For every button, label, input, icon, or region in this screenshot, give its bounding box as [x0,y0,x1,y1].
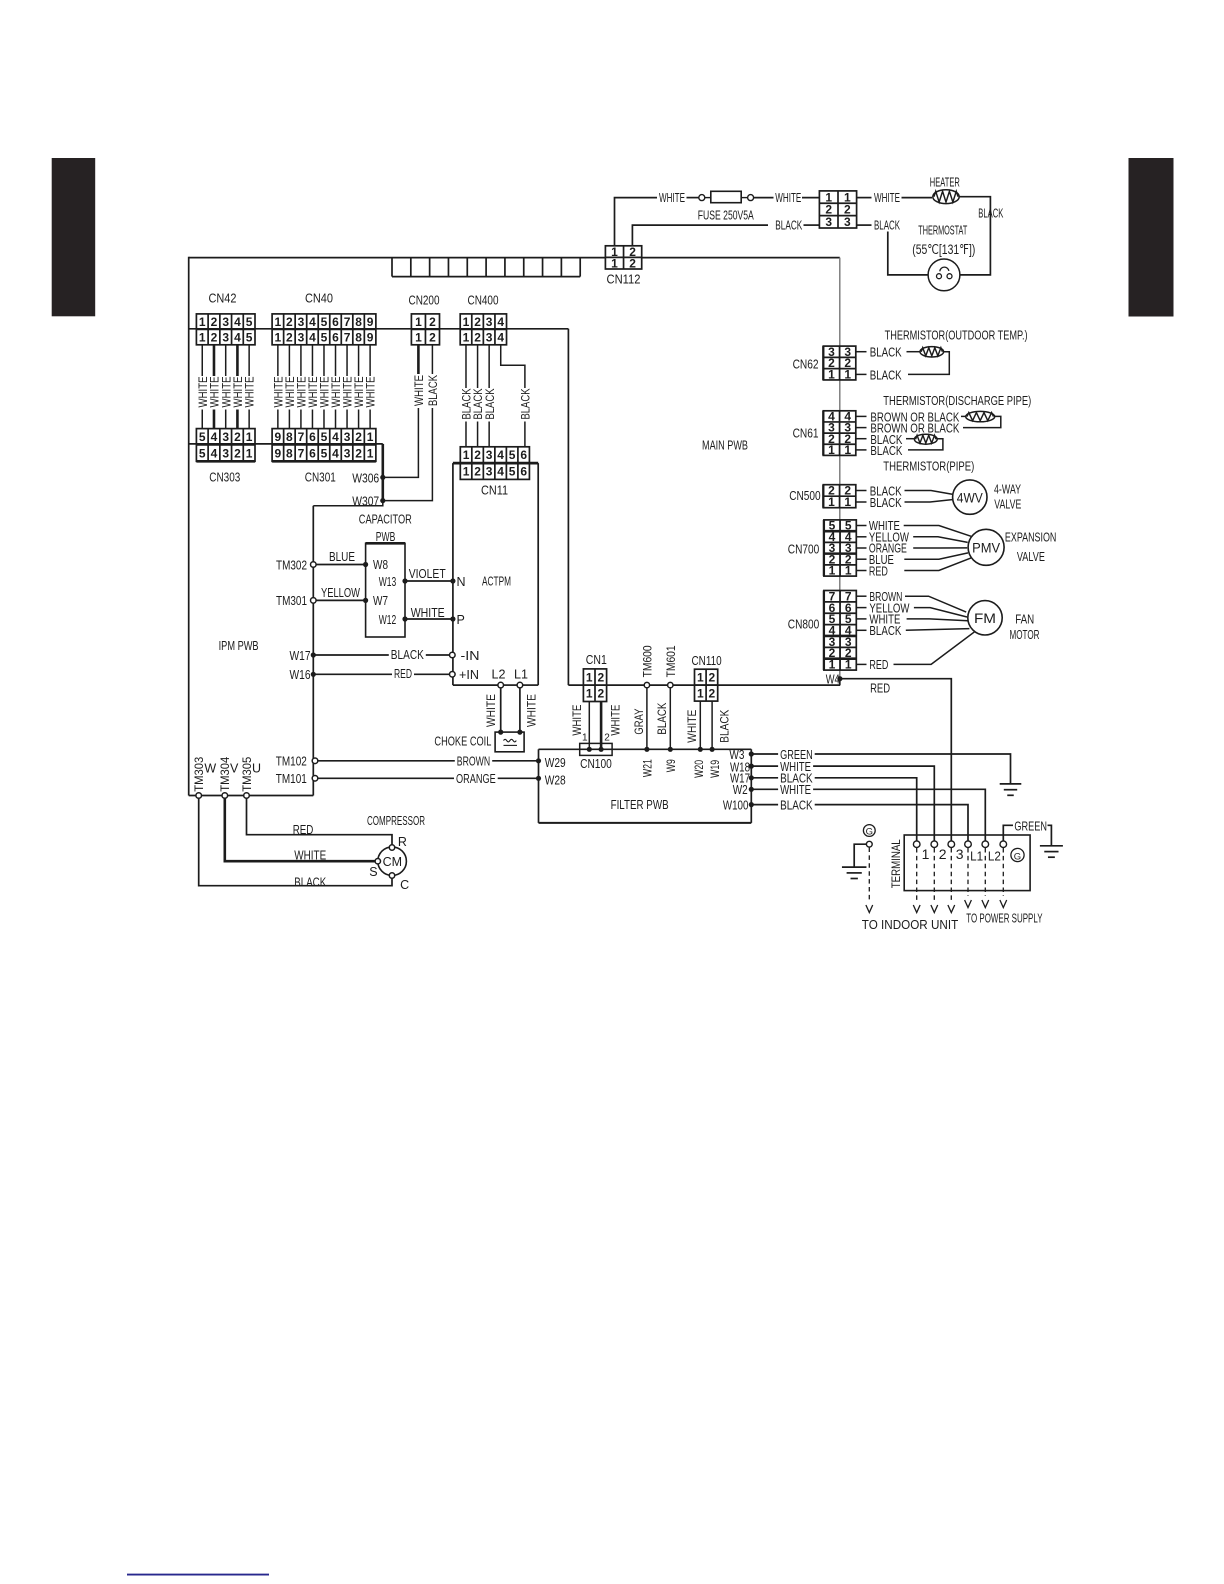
svg-text:4-WAY: 4-WAY [994,482,1021,496]
node W17 [311,652,316,657]
page tab right [1129,158,1174,317]
label WHITE [778,783,813,798]
svg-text:S: S [369,865,377,879]
wire L1 to choke coil [519,688,521,732]
wire black W17 to terminal 1 [751,778,916,842]
svg-text:VIOLET: VIOLET [409,567,446,581]
svg-text:W28: W28 [545,773,566,787]
IPM PWB right edge [312,506,314,796]
svg-text:4: 4 [309,315,316,329]
svg-text:2: 2 [474,330,481,344]
svg-text:CN301: CN301 [305,470,336,485]
svg-text:2: 2 [234,446,241,460]
node W7 [363,598,368,603]
svg-text:CN100: CN100 [580,757,612,771]
svg-text:CN200: CN200 [409,293,440,308]
svg-text:BLACK: BLACK [870,346,903,360]
svg-text:VALVE: VALVE [1017,550,1045,564]
connector CN400 [460,314,506,345]
svg-text:7: 7 [298,446,305,460]
node W4 [837,676,842,681]
svg-text:W12: W12 [379,613,397,627]
svg-text:1: 1 [844,443,851,457]
node W28 [536,776,541,781]
comb edge connector [392,258,580,277]
node choke L2 [498,730,503,735]
svg-text:BLACK: BLACK [655,703,669,735]
wire CN112 column [839,258,841,679]
svg-text:WHITE: WHITE [412,375,426,406]
svg-text:5: 5 [509,464,516,478]
svg-text:3: 3 [844,215,851,229]
svg-text:W29: W29 [545,756,566,770]
node P [450,616,455,621]
svg-text:EXPANSION: EXPANSION [1005,531,1057,545]
svg-text:2: 2 [709,670,716,684]
svg-text:3: 3 [222,315,229,329]
wire CN62-1 stub [856,373,867,375]
svg-text:1: 1 [845,658,852,672]
svg-text:CN61: CN61 [793,427,819,441]
connector CN11 [460,447,529,480]
wire red W16 to +IN [313,673,449,675]
wire CN61-1 stub [856,449,867,451]
svg-text:1: 1 [922,846,930,862]
wire black CN62-3 to thermistor [856,351,867,353]
svg-text:3: 3 [298,315,305,329]
connector CN800 [824,589,856,671]
svg-text:W21: W21 [641,759,655,777]
svg-text:3: 3 [486,330,493,344]
ground mark G in circle [1011,848,1024,862]
svg-text:1: 1 [275,315,282,329]
svg-text:BLACK: BLACK [874,218,900,232]
wire red CN700-1 to PMV [856,570,867,572]
wire heater to thermostat right [959,197,990,275]
heater element [933,190,959,204]
node W13 [402,578,407,583]
wire black CN500-1 to 4WV [856,501,867,503]
svg-text:2: 2 [597,687,604,701]
wire green W3 to ground [751,754,1010,784]
node W29 [536,758,541,763]
svg-text:2: 2 [211,330,218,344]
svg-text:WHITE: WHITE [570,705,584,736]
svg-text:5: 5 [199,446,206,460]
label BLACK [389,648,426,663]
svg-text:P: P [457,613,465,627]
svg-text:PMV: PMV [972,540,1001,556]
node W19 [710,747,715,752]
svg-text:TM302: TM302 [276,559,307,573]
svg-text:CN700: CN700 [788,542,820,556]
footer rule [127,1574,269,1576]
svg-text:W17: W17 [290,649,311,663]
svg-text:5: 5 [509,448,516,462]
node W8 [363,562,368,567]
svg-text:3: 3 [298,330,305,344]
label WHITE [778,760,813,775]
label ORANGE [454,772,498,787]
wires CN42 to CN303 white [196,345,257,429]
label BLACK [778,771,815,786]
heater connector 3x2 [819,190,856,229]
ACTPM module outline [453,463,538,685]
svg-text:1: 1 [844,368,851,382]
svg-text:+IN: +IN [459,668,479,682]
svg-text:2: 2 [629,256,636,270]
wire L2 to choke coil [500,688,502,732]
svg-text:9: 9 [367,315,374,329]
wire red W4 to terminal 3 [840,679,951,842]
svg-text:-IN: -IN [461,649,480,663]
ground right [1040,846,1063,857]
svg-text:W8: W8 [373,558,388,572]
thermistor pipe [914,434,937,444]
svg-text:WHITE: WHITE [659,191,685,205]
svg-text:BLACK: BLACK [870,368,903,382]
svg-text:5: 5 [321,330,328,344]
svg-text:5: 5 [199,430,206,444]
node W20 [698,747,703,752]
IPM PWB bottom edge [189,795,314,797]
svg-text:WHITE: WHITE [608,705,622,736]
svg-text:W9: W9 [664,759,678,772]
connector CN303 [196,429,255,462]
svg-text:1: 1 [463,315,470,329]
wire white to fuse [687,197,699,199]
node W2 [749,787,754,792]
svg-text:2: 2 [355,446,362,460]
compressor CM [378,847,407,876]
wire heater connector pin3 to black [857,224,872,226]
wire blue TM302 to W8 [316,564,365,566]
svg-text:ACTPM: ACTPM [482,574,511,589]
wire black to heater connector [804,224,820,226]
svg-text:1: 1 [844,495,851,509]
svg-text:5: 5 [321,446,328,460]
node W17 [749,775,754,780]
svg-text:1: 1 [828,368,835,382]
svg-text:BLACK: BLACK [519,389,533,420]
svg-text:2: 2 [604,732,610,743]
terminal C [389,873,394,878]
wire brown TM102 to W29 [318,760,539,762]
wire yellow CN700-4 to PMV [856,536,867,538]
svg-text:7: 7 [298,430,305,444]
svg-text:WHITE: WHITE [411,606,445,620]
svg-text:1: 1 [586,687,593,701]
svg-text:CN40: CN40 [305,291,333,306]
svg-text:3: 3 [486,464,493,478]
svg-text:BLACK: BLACK [870,496,903,510]
svg-text:L2: L2 [988,849,1001,864]
svg-text:CM: CM [383,855,402,869]
svg-text:TM101: TM101 [276,772,307,786]
wire yellow TM301 to W7 [316,599,365,601]
svg-text:FILTER PWB: FILTER PWB [611,797,669,812]
svg-text:5: 5 [246,315,253,329]
svg-text:CN62: CN62 [793,357,819,371]
svg-text:1: 1 [246,430,253,444]
svg-text:FAN: FAN [1015,613,1034,627]
connector CN100 [580,743,612,755]
svg-text:WHITE: WHITE [294,849,326,863]
terminal TM303 [196,793,202,799]
svg-text:4: 4 [234,330,241,344]
thermistor discharge [966,411,995,421]
wire white CN700-5 to PMV [856,525,867,527]
wire CN200 pin1 white to W306 [417,345,420,374]
svg-text:CN11: CN11 [481,483,508,498]
svg-text:W: W [204,762,216,776]
node W12 [402,616,407,621]
wire white CN110 pin1 to W20 [699,701,701,749]
svg-text:THERMISTOR(PIPE): THERMISTOR(PIPE) [883,458,974,473]
svg-text:3: 3 [222,330,229,344]
wire CN112 pin2 black [632,225,768,246]
svg-text:TM102: TM102 [276,754,307,768]
wire main PWB to bus corner [567,329,569,685]
thermostat [928,259,960,291]
wire white W12 to P [405,618,453,620]
valve 4WV [953,480,987,514]
svg-text:4: 4 [211,430,218,444]
svg-text:CN110: CN110 [692,654,722,668]
svg-text:2: 2 [939,846,947,862]
svg-text:BLACK: BLACK [870,444,903,458]
terminal R [389,845,394,850]
svg-text:WHITE: WHITE [364,377,378,408]
svg-text:L2: L2 [492,668,506,682]
terminal L2 [498,682,504,688]
svg-text:2: 2 [429,315,436,329]
terminal TM601 [668,682,673,687]
fuse FUSE 250V5A [699,191,754,202]
wire black W17 to -IN [313,654,449,656]
svg-text:WHITE: WHITE [524,694,538,727]
svg-text:ORANGE: ORANGE [456,772,496,786]
ground W3 [1000,784,1022,795]
svg-text:2: 2 [211,315,218,329]
terminal 3 [948,841,955,848]
svg-text:CN42: CN42 [209,291,237,306]
node W16 [311,672,316,677]
svg-text:1: 1 [367,446,374,460]
wire earth to ground [854,844,866,867]
svg-text:IPM PWB: IPM PWB [219,638,259,653]
svg-text:BLACK: BLACK [775,218,802,232]
svg-text:2: 2 [709,686,716,700]
svg-text:6: 6 [332,315,339,329]
svg-text:FM: FM [974,611,996,626]
wire heater connector pin1 to white [857,197,872,199]
svg-text:BLACK: BLACK [483,389,497,420]
svg-text:2: 2 [234,430,241,444]
svg-text:TO POWER SUPPLY: TO POWER SUPPLY [966,912,1043,926]
wire blue CN700-2 to PMV [856,558,867,560]
terminal TM304 [222,793,228,799]
svg-text:THERMISTOR(DISCHARGE PIPE): THERMISTOR(DISCHARGE PIPE) [883,393,1031,408]
terminal TM102 [312,758,318,764]
wire black CN500-2 to 4WV [856,490,867,492]
svg-text:1: 1 [582,732,588,743]
ground left [842,867,867,878]
svg-text:HEATER: HEATER [930,175,960,189]
connector CN62 [823,345,856,382]
wire red CN800-1 to FM [856,663,867,665]
svg-text:BLACK: BLACK [718,710,732,743]
svg-text:BLACK: BLACK [294,875,326,889]
node CN100 pin1 [587,747,592,752]
svg-text:5: 5 [321,315,328,329]
svg-text:RED: RED [394,667,412,681]
svg-text:8: 8 [355,330,362,344]
svg-text:WHITE: WHITE [780,783,811,797]
svg-text:GREEN: GREEN [1014,820,1047,834]
terminal S [375,859,380,864]
svg-text:THERMISTOR(OUTDOOR TEMP.): THERMISTOR(OUTDOOR TEMP.) [885,328,1028,343]
svg-text:1: 1 [828,495,835,509]
svg-text:TM600: TM600 [641,645,655,677]
wire white to heater connector [802,197,819,199]
svg-text:4: 4 [497,464,504,478]
node W307 [380,498,385,503]
svg-text:TO INDOOR UNIT: TO INDOOR UNIT [862,917,958,932]
svg-text:W20: W20 [692,760,706,778]
svg-text:CN400: CN400 [468,293,499,308]
svg-text:4: 4 [497,330,504,344]
main PWB lower edge bus [189,328,569,330]
svg-text:2: 2 [597,670,604,684]
node W100 [749,802,754,807]
svg-text:4: 4 [497,448,504,462]
svg-text:BLACK: BLACK [426,375,440,406]
svg-text:PWB: PWB [376,530,396,544]
svg-text:W100: W100 [723,799,749,813]
svg-text:L1: L1 [970,849,983,864]
svg-text:G: G [1014,851,1021,862]
wire fuse to white [754,197,774,199]
wire CN200 pin2 black to W307 [431,345,433,374]
svg-text:CHOKE COIL: CHOKE COIL [434,735,491,749]
svg-text:YELLOW: YELLOW [321,586,360,600]
label RED [392,667,414,682]
svg-text:4: 4 [332,446,339,460]
wire red TM305 to R [247,798,393,844]
svg-text:L1: L1 [514,668,528,682]
svg-text:WHITE: WHITE [685,710,699,743]
wire orange TM101 to W28 [318,777,539,779]
svg-text:8: 8 [355,315,362,329]
svg-text:2: 2 [474,315,481,329]
svg-text:FUSE 250V5A: FUSE 250V5A [698,208,754,222]
connector CN301 [272,429,376,462]
svg-text:THERMOSTAT: THERMOSTAT [918,224,967,238]
main PWB left edge [188,257,190,796]
thermistor outdoor [920,347,944,357]
wires CN400 to CN11 black [460,345,533,447]
svg-text:8: 8 [286,430,293,444]
svg-text:4: 4 [497,315,504,329]
svg-text:7: 7 [344,330,351,344]
svg-text:6: 6 [520,448,527,462]
wire black W100 to terminal L1 [751,805,968,842]
svg-text:RED: RED [869,658,888,672]
svg-text:6: 6 [309,446,316,460]
wires CN40 to CN301 white [271,345,377,429]
svg-text:1: 1 [275,330,282,344]
filter PWB box [539,749,752,823]
svg-text:COMPRESSOR: COMPRESSOR [367,814,425,828]
svg-text:VALVE: VALVE [994,498,1021,512]
terminal -IN [450,652,456,658]
wire CN1 pin1 white to CN100 [588,702,590,748]
svg-text:5: 5 [321,430,328,444]
svg-text:WHITE: WHITE [243,377,257,408]
terminal block [904,835,1030,891]
svg-text:BLACK: BLACK [780,799,813,813]
svg-text:MOTOR: MOTOR [1010,628,1040,642]
wire CN61-3 stub [856,427,867,429]
choke coil [495,732,524,752]
svg-text:9: 9 [367,330,374,344]
svg-text:W16: W16 [290,668,311,682]
svg-text:7: 7 [344,315,351,329]
svg-text:BLUE: BLUE [329,550,355,564]
terminal L1 [965,841,972,848]
svg-text:2: 2 [429,330,436,344]
svg-text:3: 3 [344,430,351,444]
svg-text:6: 6 [309,430,316,444]
svg-text:1: 1 [829,564,836,578]
terminal G [1000,841,1007,848]
svg-text:CN303: CN303 [209,470,240,485]
wire thermistor to CN62-1 [908,352,949,375]
svg-text:1: 1 [415,330,422,344]
svg-text:9: 9 [275,446,282,460]
terminal +IN [450,672,456,678]
svg-text:RED: RED [293,823,314,837]
wire white to heater [902,197,933,199]
terminal earth [866,841,872,847]
svg-text:1: 1 [586,670,593,684]
terminal 2 [931,841,938,848]
node choke L1 [517,730,522,735]
wire yellow CN800-6 to FM [856,607,867,609]
svg-text:CN112: CN112 [607,272,641,287]
connector CN61 [823,410,856,457]
svg-text:W13: W13 [379,575,397,589]
connector CN500 [823,484,856,510]
node W18 [749,764,754,769]
svg-text:WHITE: WHITE [775,191,801,205]
terminal L2 [982,841,989,848]
svg-text:TERMINAL: TERMINAL [889,839,903,888]
connector CN40 [272,314,376,345]
wire CN61-4 to thermistor [856,415,867,417]
connector CN42 [196,314,255,345]
wire black CN800-4 to FM [856,629,867,631]
terminal TM305 [244,793,250,799]
node W3 [749,751,754,756]
wire white TM304 to S [225,798,375,861]
connector CN112 [605,245,641,271]
wire thermistor to CN61-1 [908,439,943,450]
svg-text:2: 2 [286,330,293,344]
svg-text:N: N [457,575,466,589]
wire brown CN800-7 to FM [856,595,867,597]
